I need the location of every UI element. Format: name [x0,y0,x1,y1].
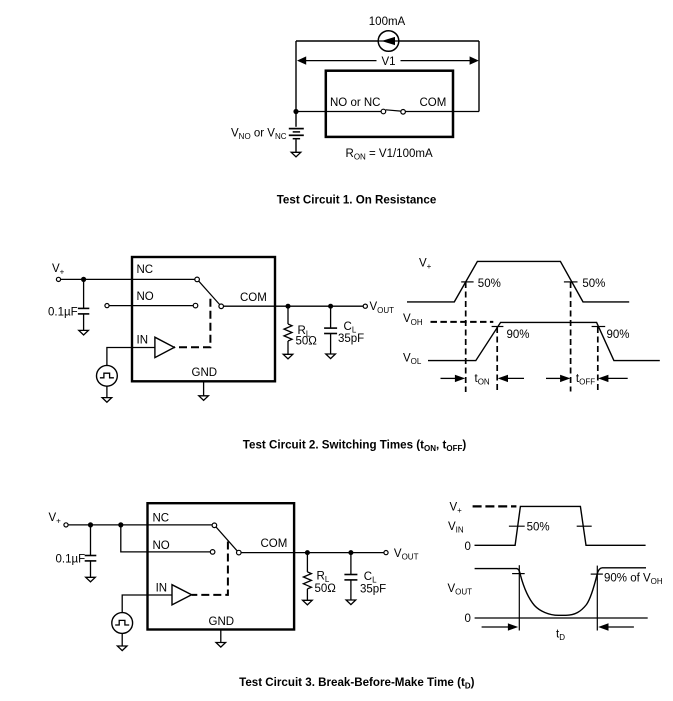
switch S1 lever [386,110,401,111]
svg-text:V1: V1 [381,56,395,68]
dashed marker t-off 50% [570,282,572,392]
svg-text:35pF: 35pF [360,583,386,595]
svg-text:90%: 90% [607,329,630,341]
wire RL to ground [306,589,308,600]
tick 90% left [512,573,525,575]
svg-text:50%: 50% [527,521,550,533]
wire to CL [350,553,352,575]
wire to RL [306,553,308,572]
marker line right [596,566,598,631]
arrow t-off right [598,375,608,382]
pin GND wire [220,630,222,643]
node junction RL [286,304,291,309]
wire capacitor to ground [83,314,85,330]
svg-text:COM: COM [240,292,267,304]
svg-text:Test Circuit 1. On Resistance: Test Circuit 1. On Resistance [277,193,437,206]
switch box U1 [326,71,453,137]
switch S3 pole COM [237,550,242,555]
svg-text:0.1µF: 0.1µF [48,306,78,318]
wire CL to ground [330,334,332,354]
actuator dashed link [192,542,228,595]
wire V+ to NC contact [61,278,195,280]
pulse generator G2 [97,365,118,386]
dashed level V+ [473,505,517,507]
switch S3 contact NC [212,523,217,528]
wire generator to ground [106,386,108,397]
wire junction to capacitor [83,279,85,308]
svg-text:NC: NC [137,264,154,276]
node junction cap [81,277,86,282]
waveform input [475,506,646,545]
terminal VOUT [384,551,388,555]
ground [283,354,293,359]
battery V1 source [289,128,304,130]
svg-text:IN: IN [156,582,168,594]
svg-text:IN: IN [137,335,149,347]
wire NO [109,305,193,307]
svg-text:NC: NC [153,512,170,524]
terminal V+ [64,523,68,527]
wire IN from pulse generator [107,348,155,366]
node junction CL [328,304,333,309]
svg-text:0: 0 [465,613,471,625]
svg-text:NO: NO [137,291,154,303]
svg-text:COM: COM [261,538,288,550]
svg-text:90%: 90% [507,329,530,341]
pin GND wire [203,381,205,395]
switch S2 pole COM [219,304,224,309]
capacitor CL 35pF [344,574,357,576]
svg-text:COM: COM [420,97,447,109]
wire NO branch [121,525,211,552]
terminal V+ [56,277,60,281]
ground [303,600,313,605]
ground [326,354,336,359]
wire top loop [296,40,479,42]
wire to CL [330,306,332,328]
waveform output plateau left [475,568,518,570]
tick 50% rising [509,525,525,527]
arrow tD left [482,626,510,628]
dimension arrow V1 [305,60,377,62]
wire junction to capacitor [90,525,92,556]
arrow tD right [598,623,608,630]
dashed marker t-off 90% [597,327,599,392]
node junction NO branch [118,522,123,527]
tick 90% falling [592,326,606,328]
capacitor C1 0.1uF [78,307,89,309]
capacitor CL 35pF [324,327,337,329]
waveform output [428,322,660,360]
switch S2 contact NO [193,303,198,308]
waveform input V+ [407,261,629,302]
ground [86,577,96,582]
node junction at battery [293,109,298,114]
svg-text:50Ω: 50Ω [296,335,318,347]
switch S1 pole right [401,110,406,115]
dashed level VOH [431,321,494,323]
wire generator to ground [121,634,123,646]
wire left vertical [295,41,297,127]
node junction CL [348,550,353,555]
arrow t-on left [441,377,457,379]
ground [199,396,209,401]
arrow t-off left [546,377,562,379]
arrow t-on right [498,375,508,382]
svg-text:50%: 50% [478,278,501,290]
svg-text:100mA: 100mA [369,16,406,28]
tick 90% right [591,573,603,575]
tick 50% rising [461,281,473,283]
svg-text:NO or NC: NO or NC [330,97,380,109]
driver buffer A3 [172,585,192,605]
wire RL to ground [287,341,289,354]
switch box U2 [132,257,275,381]
dashed marker t-on 50% [465,282,467,392]
switch S3 lever [216,527,237,551]
actuator dashed link [174,299,210,348]
pulse generator G3 [112,613,133,634]
ground [346,600,356,605]
switch S2 contact NC [195,277,200,282]
node junction RL [305,550,310,555]
resistor RL 50ohm [303,572,311,589]
tick 50% falling [577,525,592,527]
svg-text:35pF: 35pF [338,333,364,345]
waveform output bathtub curve [517,568,646,616]
svg-text:GND: GND [192,367,218,379]
axis zero [475,617,648,619]
switch S1 contact left [381,109,386,114]
marker line left [518,565,520,630]
wire COM to VOUT [241,552,384,554]
wire to RL [287,306,289,324]
svg-text:Test Circuit 3. Break-Before-M: Test Circuit 3. Break-Before-Make Time (… [239,676,475,691]
svg-text:0.1µF: 0.1µF [56,553,86,565]
tick 50% falling [564,281,578,283]
svg-text:GND: GND [209,616,235,628]
current source I1 100mA [378,31,399,52]
svg-text:50Ω: 50Ω [315,583,337,595]
switch S2 lever [199,281,220,304]
wire COM to VOUT [224,305,364,307]
svg-text:NO: NO [153,540,170,552]
node junction cap [88,522,93,527]
ground [117,646,127,651]
tick 90% rising [492,326,504,328]
wire IN from pulse generator [122,595,172,613]
ground [102,398,112,403]
wire right vertical [478,41,480,112]
wire battery to ground [295,140,297,153]
svg-text:0: 0 [465,541,471,553]
ground [291,152,301,157]
wire CL to ground [350,580,352,600]
ground [79,330,89,335]
terminal VOUT [363,304,367,308]
wire switch left [296,111,381,113]
svg-text:50%: 50% [582,278,605,290]
ground [216,643,226,648]
terminal NO open [105,304,109,308]
switch box U3 [148,503,295,629]
driver buffer A2 [155,337,174,357]
capacitor C3 0.1uF [85,555,97,557]
dashed marker t-on 90% [496,327,498,392]
switch S3 contact NO [210,550,215,555]
wire capacitor to ground [90,561,92,577]
resistor RL 50ohm [284,324,292,341]
wire switch right [406,111,480,113]
wire V+ to NC contact [68,524,212,526]
